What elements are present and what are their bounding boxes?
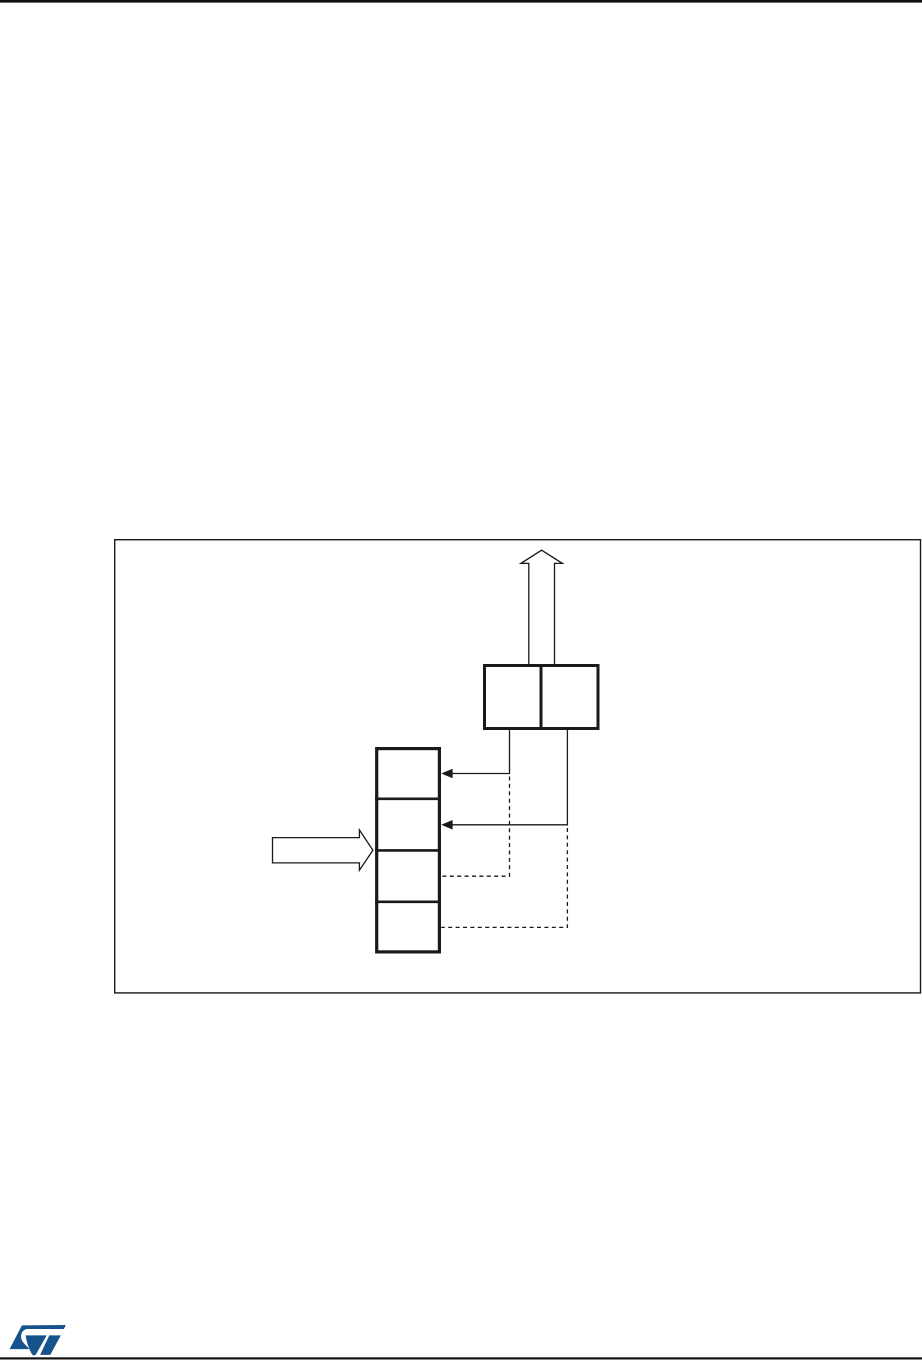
stack divider 2 [375, 849, 441, 852]
stack divider 1 [375, 797, 441, 800]
top rule [0, 0, 922, 3]
two-cell register box [485, 666, 599, 729]
two-cell box divider [540, 664, 543, 730]
arrowhead cell 2 [441, 820, 452, 830]
wire solid right (box to cell 2) [452, 730, 567, 825]
wire solid left (box to cell 1) [452, 730, 510, 774]
bottom rule [0, 1357, 922, 1359]
dashed wire right (cell 4) [441, 828, 567, 927]
input arrow (pointing right) [273, 830, 373, 870]
stack divider 3 [375, 900, 441, 903]
ST logo [10, 1325, 66, 1356]
up output arrow [521, 550, 563, 664]
figure frame [115, 540, 921, 993]
register stack (4 cells) [377, 749, 440, 952]
dashed wire left (cell 3) [441, 777, 509, 877]
arrowhead cell 1 [441, 769, 452, 779]
